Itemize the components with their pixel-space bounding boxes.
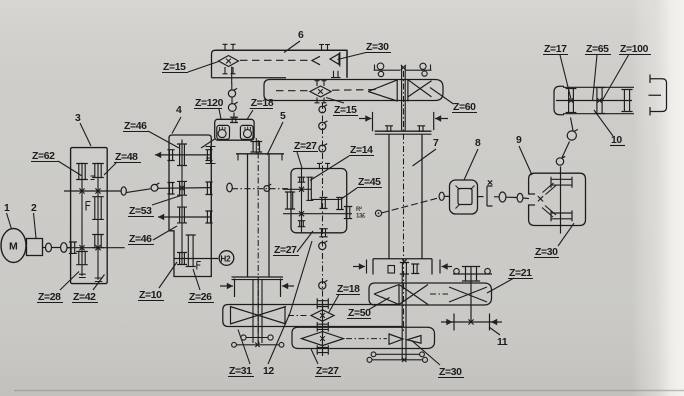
axle end 7b [372, 359, 424, 361]
thrust bracket 11R [489, 314, 491, 331]
bevel Z=27c [302, 332, 344, 346]
bearing wall L s2 [167, 183, 174, 195]
node mesh s1 [299, 187, 304, 192]
worm cup right [240, 125, 253, 139]
housing 4 [169, 135, 211, 277]
wire motor shaft [43, 247, 47, 249]
svg-text:Z=30: Z=30 [535, 247, 558, 258]
gear Z=14 [306, 177, 313, 200]
gear 12 below18 [317, 322, 328, 332]
gear Z=50 mesh [374, 284, 428, 305]
svg-text:Z=30: Z=30 [439, 367, 462, 378]
joint hook main in [151, 184, 158, 191]
inner shafts col5 [253, 280, 262, 343]
rail bottom 10 [563, 113, 634, 115]
gear col7b center [400, 263, 409, 275]
gear Z=42 wheel [92, 235, 104, 248]
wire shaft3 [192, 216, 211, 218]
thrust col5 R [280, 279, 282, 298]
gear Z=21 [462, 267, 480, 282]
node mesh 17 [569, 98, 574, 103]
svg-text:Z=26: Z=26 [189, 292, 212, 303]
housing 8 [450, 180, 478, 214]
svg-text:Z=45: Z=45 [358, 177, 381, 188]
centerline shaft6 [240, 59, 311, 61]
gear col7b right [411, 264, 419, 274]
gear Z=28 wheel [76, 252, 88, 265]
svg-text:13£: 13£ [356, 214, 366, 220]
bearing below Z15a [223, 67, 236, 74]
svg-text:Z=15: Z=15 [163, 62, 186, 73]
svg-text:Z=50: Z=50 [348, 308, 371, 319]
gear Z=30 cone R [407, 336, 421, 344]
bevel Z=15b [310, 86, 331, 97]
svg-text:Z=100: Z=100 [620, 44, 649, 55]
node mesh main [179, 185, 184, 190]
gear A low [298, 221, 306, 227]
coupling a [46, 243, 52, 252]
mark F gear26 [197, 262, 201, 270]
svg-text:6: 6 [298, 30, 304, 41]
svg-text:5: 5 [280, 111, 286, 122]
gear col5 top [251, 142, 263, 153]
gear Z=31 mesh [230, 306, 286, 325]
svg-text:M: M [9, 241, 18, 253]
node gear mesh B [95, 188, 100, 193]
gear Z=45 [336, 197, 344, 209]
axle end col5 a [246, 337, 268, 339]
svg-text:11: 11 [497, 337, 508, 348]
svg-text:Z=30: Z=30 [366, 42, 389, 53]
gear Z=26 wheel [186, 235, 196, 267]
coupling c [499, 192, 506, 202]
bearing below Z15b [315, 98, 327, 104]
bevel Z=18b [311, 310, 334, 321]
svg-text:Z=120: Z=120 [195, 98, 224, 109]
wire worm shaft [233, 113, 235, 120]
thrust col7b R [439, 260, 441, 274]
plate col5 top [236, 153, 284, 155]
bearing circles left [377, 63, 384, 70]
wire stub mid 5R [311, 198, 341, 200]
node shaft8 end [375, 210, 381, 216]
worm section left [218, 130, 226, 138]
joint hook 9b [567, 131, 576, 140]
wire gear21 rail [453, 273, 492, 275]
centerline main h [232, 188, 289, 190]
wire link 10 [571, 118, 574, 131]
svg-text:Z=65: Z=65 [586, 44, 609, 55]
housing bar C [369, 283, 492, 305]
svg-text:Z=53: Z=53 [129, 206, 152, 217]
joint hook 12c [319, 242, 326, 249]
centerline bar C [430, 293, 448, 295]
centerline bar A [288, 315, 309, 317]
node worm9 [538, 196, 543, 201]
gear 9 bottom [551, 210, 572, 221]
wire shaft9 vert [560, 167, 562, 234]
wire shaft4 [174, 258, 218, 260]
coupling b [61, 243, 67, 253]
wire stub2 5R [283, 213, 352, 215]
bevel Z=15a [219, 56, 239, 67]
gear col7 right [417, 126, 425, 131]
coupling box4-col5 [227, 183, 233, 192]
bearing wall R s3 [205, 211, 212, 223]
stub gear link [210, 146, 212, 164]
svg-text:Z=62: Z=62 [32, 151, 55, 162]
svg-text:Z=60: Z=60 [453, 102, 476, 113]
plate col5 bottom [232, 276, 284, 278]
bevel Z=30 cone [330, 54, 339, 65]
gear Z=17 [566, 89, 577, 113]
thrust bracket 11L [453, 314, 455, 331]
node mesh B low [95, 245, 100, 250]
gear A high [298, 177, 306, 182]
worm wheel 8 [458, 189, 472, 205]
gear 12 below27 [317, 345, 328, 355]
node thrust 11 [468, 319, 473, 324]
housing 9 [529, 173, 586, 225]
thrust col5 L [234, 279, 236, 298]
svg-text:Z=27: Z=27 [294, 141, 317, 152]
coupling worm8 in [439, 192, 444, 200]
worm cup left [217, 125, 230, 139]
wire bevel to worm [231, 67, 233, 85]
bearing above Z15b [315, 81, 327, 87]
bearing circles right [420, 63, 426, 69]
scan shadow line bottom [14, 390, 684, 392]
svg-text:Z=10: Z=10 [139, 290, 162, 301]
thrust col7b L [366, 260, 368, 274]
shaft B box3 [97, 163, 99, 280]
gear 9 top [551, 177, 572, 188]
gear on B mid [92, 197, 104, 220]
mark = [91, 176, 95, 180]
bearing rail left [374, 69, 401, 71]
joint hook worm upper [228, 90, 235, 97]
bevel small right [312, 56, 320, 65]
wire shaft into box 3 [67, 247, 71, 249]
joint on main [264, 186, 270, 192]
centerline shaft12 [322, 103, 324, 299]
bearing wall R s2 [344, 207, 352, 219]
bearing wall L s1 [167, 150, 174, 161]
wire worm8 out [478, 196, 484, 198]
joint hook 12d [319, 282, 326, 289]
svg-text:Z=15: Z=15 [334, 105, 357, 116]
gear mesh 21 [449, 287, 487, 302]
joint hook worm lower [228, 104, 236, 112]
wall right col7 [421, 134, 423, 259]
svg-text:Z=21: Z=21 [509, 268, 532, 279]
wire into box9 [523, 197, 529, 200]
coupling d [517, 193, 523, 202]
node mesh A low [79, 245, 84, 250]
node gear mesh A [79, 188, 84, 193]
wire joint link [231, 83, 233, 90]
svg-text:Z=14: Z=14 [350, 145, 373, 156]
wire shaft 21 [470, 266, 472, 322]
pin square col7b [388, 266, 395, 274]
shaft1 arrow box4 [155, 154, 190, 156]
centerline bar [276, 90, 310, 92]
clamp symbol [487, 186, 493, 206]
svg-text:8: 8 [475, 138, 481, 149]
wire shaft1 [190, 154, 211, 156]
gear col7 left [385, 126, 393, 131]
svg-text:Z=42: Z=42 [73, 292, 96, 303]
svg-text:Z=46: Z=46 [129, 234, 152, 245]
wire shaft [51, 247, 61, 249]
wire link box3-box4 [126, 189, 151, 193]
centerline col5 [257, 140, 259, 344]
svg-text:Z=18: Z=18 [251, 98, 274, 109]
gear Z=46b wheel [177, 207, 187, 223]
thrust line 11 [446, 321, 498, 323]
housing bar A [223, 305, 402, 327]
svg-text:3: 3 [75, 113, 81, 124]
svg-text:Z=28: Z=28 [38, 292, 61, 303]
rail top 10 [563, 86, 634, 88]
gear Z=62 [76, 164, 88, 180]
node col7b [402, 259, 406, 263]
centerline col7 [403, 71, 405, 332]
svg-text:Z=48: Z=48 [115, 152, 138, 163]
shaft 7 upper [401, 66, 403, 131]
wire shaft12 low [322, 299, 324, 356]
shaft3 arrow box4 [158, 216, 192, 218]
shaft 7 lower [401, 275, 403, 361]
svg-text:Z=31: Z=31 [229, 366, 252, 377]
svg-text:Z=27: Z=27 [274, 245, 297, 256]
svg-text:4: 4 [176, 105, 182, 116]
gear Z=10 wheel [177, 253, 187, 265]
svg-text:12: 12 [263, 366, 274, 377]
wire link [494, 196, 499, 198]
wire shaft6 top line [215, 49, 347, 51]
housing 10 bracket [554, 86, 564, 115]
housing bar top [212, 78, 444, 101]
thrust bracket right col7 [433, 112, 435, 130]
gear Z=53 wheel [177, 181, 187, 195]
wire worm to box4 [201, 139, 215, 148]
wall ticks col5 [238, 154, 282, 160]
svg-text:R²: R² [356, 206, 362, 213]
wire low shaft box3 [67, 247, 125, 249]
joint hook 12b [319, 145, 326, 152]
dial H2 [219, 251, 234, 266]
svg-text:10: 10 [611, 135, 622, 146]
shaft A 5R [301, 169, 303, 233]
gear Z=60 mesh [368, 79, 431, 102]
wire worm8 stub [444, 195, 449, 197]
housing worm box [215, 119, 254, 140]
axle end 7a [376, 353, 421, 355]
axle end col5 b [237, 344, 280, 346]
gear Z=48 wheel [92, 164, 104, 178]
worm 9 hatch [542, 183, 557, 217]
gear Z=27 low [319, 229, 327, 237]
bearing wall R s1 [205, 150, 212, 161]
wire housing right wall [346, 50, 348, 78]
svg-text:2: 2 [31, 203, 37, 214]
housing col7 bottom [373, 259, 432, 275]
plate col7 top [375, 130, 432, 132]
bearing rail right [406, 69, 432, 71]
gear Z=46a [177, 144, 187, 166]
joint hook 12a0 [319, 106, 326, 113]
wire link 9 [562, 142, 570, 158]
gear Z=100 [621, 90, 632, 112]
centerline bar B [346, 338, 387, 340]
svg-text:7: 7 [433, 138, 439, 149]
housing bar B [292, 327, 435, 348]
shaft A box3 [81, 163, 83, 276]
svg-text:9: 9 [516, 135, 522, 146]
svg-text:Z=27: Z=27 [316, 366, 339, 377]
motor M [1, 229, 26, 263]
housing 6 outline [212, 50, 348, 78]
bearing right s6 top [319, 45, 330, 51]
joint hook 12a [319, 122, 326, 129]
gear on A mid [86, 202, 91, 211]
wall left col5 [247, 154, 249, 277]
bearing A bottom [79, 274, 86, 277]
wall left col7 [388, 134, 390, 259]
svg-text:Z=18: Z=18 [337, 284, 360, 295]
node mesh s2 [299, 211, 304, 216]
svg-text:Z=17: Z=17 [544, 44, 567, 55]
gear cluster 5R [285, 192, 295, 209]
wire main shaft box4 [158, 187, 211, 190]
wire stub1 5R [283, 188, 311, 190]
centerline shaft8 [382, 198, 437, 213]
worm section right [244, 130, 252, 138]
joint hook 9a [556, 158, 563, 165]
housing 3 [71, 148, 108, 284]
gear Z=30 cone L [389, 334, 403, 344]
gear 12 above18 [317, 298, 328, 309]
gear B mid [320, 197, 328, 208]
svg-text:Z=46: Z=46 [124, 121, 147, 132]
bracket right 10 [649, 75, 667, 116]
bearing B above [317, 163, 330, 168]
bearing left wall low [69, 242, 77, 253]
coupling housing 2 [27, 239, 43, 256]
gear Z=65 [594, 88, 605, 114]
svg-text:H2: H2 [220, 254, 231, 263]
node shaft7 top [401, 65, 406, 70]
gear worm input [230, 117, 238, 122]
bearing B bottom [95, 278, 103, 282]
bearing wall R s2 [205, 182, 212, 195]
wall right col5 [268, 154, 270, 277]
housing 5R [291, 169, 347, 233]
node mesh 65 [597, 98, 602, 103]
layshaft box4 [181, 140, 183, 266]
svg-text:1: 1 [4, 203, 10, 214]
wire mid shaft box3 [64, 190, 121, 192]
coupling box3 out [121, 187, 126, 195]
wire shaft 10 [556, 100, 632, 102]
bearing circle 21R [485, 268, 491, 274]
bearing above Z15a [223, 44, 236, 50]
bearing right s6 bot [331, 71, 341, 78]
bearing circle 21L [454, 268, 460, 274]
thrust bracket left col7 [372, 112, 374, 131]
